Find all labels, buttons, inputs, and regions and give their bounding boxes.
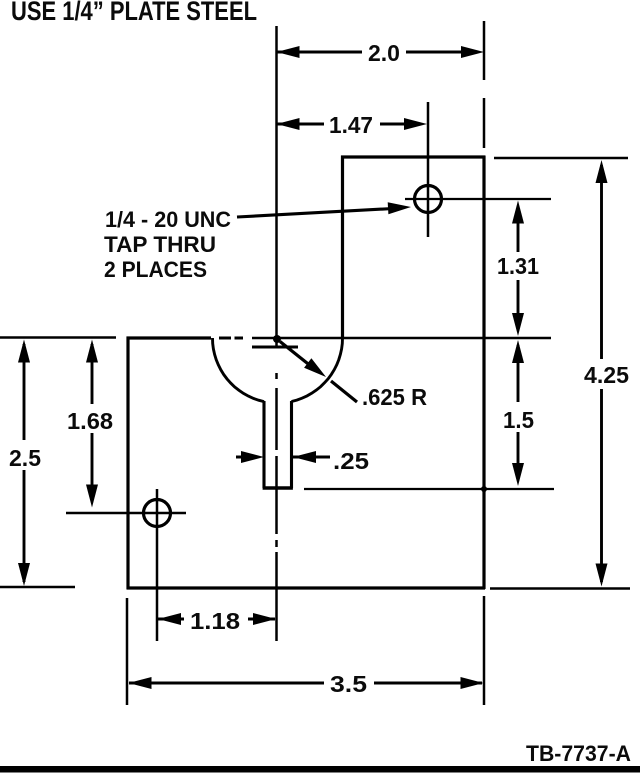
upper hole horizontal centerline / extension to 1.31 bbox=[405, 198, 551, 200]
svg-text:1/4 - 20 UNC: 1/4 - 20 UNC bbox=[105, 207, 231, 232]
dimension 1.68 bbox=[67, 340, 113, 508]
svg-text:2.5: 2.5 bbox=[9, 445, 41, 471]
vertical centerline of notch (dash-dot) with upper extension for 2.0/1.47 bbox=[275, 26, 278, 641]
upper tapped hole circle bbox=[415, 186, 442, 213]
upper extension of tab right edge for 2.0 bbox=[483, 21, 486, 148]
lower hole horizontal centerline bbox=[66, 512, 186, 515]
dimension 1.18 (below body) bbox=[158, 608, 276, 634]
dimension 2.5 (far left) bbox=[9, 340, 41, 587]
dimension 1.5 bbox=[503, 340, 534, 486]
junction blob at notch center bbox=[273, 335, 281, 343]
extension line at tab top edge to 4.25 dim bbox=[494, 157, 628, 160]
dimension 2.0 (top) bbox=[277, 40, 485, 66]
dimension .25 slot width arrows bbox=[236, 448, 369, 474]
radius leader arrow inside notch bbox=[280, 342, 326, 378]
plate outline: left edge bbox=[126, 337, 129, 590]
svg-text:1.5: 1.5 bbox=[503, 407, 534, 433]
svg-text:4.25: 4.25 bbox=[584, 362, 629, 388]
svg-text:1.18: 1.18 bbox=[190, 608, 240, 634]
svg-text:1.47: 1.47 bbox=[329, 112, 373, 138]
dimension 4.25 (far right) bbox=[584, 160, 629, 587]
svg-text:TB-7737-A: TB-7737-A bbox=[526, 741, 631, 766]
plate outline: tab left edge bbox=[341, 156, 344, 339]
notch .625R arc left half bbox=[213, 338, 265, 402]
svg-text:.25: .25 bbox=[333, 448, 369, 474]
lower tapped hole circle bbox=[144, 500, 171, 527]
extension line bottom left for 2.5 bbox=[0, 586, 75, 589]
dimension 1.31 (right of hole) bbox=[497, 201, 539, 337]
lower extension of body left corner for 3.5 bbox=[126, 598, 129, 705]
extension line at slot-bottom level to 1.5 dim bbox=[304, 488, 554, 490]
plate outline: upper tab top edge bbox=[341, 155, 485, 158]
svg-text:3.5: 3.5 bbox=[330, 671, 367, 697]
short center-mark line below edge bbox=[252, 346, 298, 349]
extension line bottom right for 4.25 bbox=[490, 587, 630, 590]
plate outline: lower body top edge bbox=[127, 336, 212, 339]
slot right edge bbox=[290, 401, 293, 488]
lower extension of body right corner for 3.5 bbox=[483, 596, 486, 705]
radius leader segment outside arc to label bbox=[331, 381, 357, 402]
extension line y=337 to left margin for 2.5/1.68 bbox=[0, 336, 116, 339]
svg-text:TAP THRU: TAP THRU bbox=[104, 232, 216, 257]
svg-text:2 PLACES: 2 PLACES bbox=[104, 257, 207, 282]
svg-text:USE 1/4” PLATE STEEL: USE 1/4” PLATE STEEL bbox=[11, 0, 257, 26]
upper hole vertical centerline bbox=[427, 102, 430, 237]
svg-text:.625 R: .625 R bbox=[362, 384, 427, 410]
arc-center dashes on edge line left of centerline bbox=[219, 337, 243, 340]
svg-text:2.0: 2.0 bbox=[368, 40, 400, 66]
notch .625R arc right half bbox=[292, 338, 343, 402]
dimension 3.5 (bottom) bbox=[129, 671, 484, 697]
plate outline: bottom edge bbox=[127, 586, 486, 589]
edge-level line across notch / extension to 1.31-1.5 dims bbox=[252, 337, 551, 340]
junction dot right edge x 489 line bbox=[481, 486, 487, 492]
svg-text:1.31: 1.31 bbox=[497, 253, 539, 279]
slot left edge bbox=[262, 401, 265, 488]
slot bottom edge bbox=[263, 486, 293, 490]
dimension 1.47 bbox=[277, 112, 428, 138]
svg-text:1.68: 1.68 bbox=[67, 408, 113, 434]
plate outline: right edge bbox=[482, 156, 485, 590]
tap note leader arrow to upper hole bbox=[237, 202, 411, 217]
lower hole vertical centerline / extension to 1.18 bbox=[156, 489, 159, 641]
bottom rule bar bbox=[0, 766, 640, 773]
